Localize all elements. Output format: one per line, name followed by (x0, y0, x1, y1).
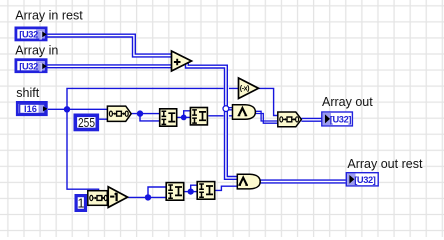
resistor R7: Join4 function (197, 182, 215, 200)
node: label Array out rest (347, 157, 423, 171)
op-amp U2: Negate function (239, 78, 259, 99)
svg-text:1: 1 (78, 197, 85, 211)
resistor R6: Join3 function (166, 183, 184, 201)
svg-text:(-x): (-x) (240, 84, 250, 93)
wire: Array in rest to Add top input (47, 36, 172, 56)
wire: Add output down and right into AND2 top input (187, 62, 237, 178)
wire: J3 up to Join3 top input (148, 187, 166, 197)
wire: JP down to Join1 bottom input (140, 114, 160, 121)
capacitor C2: constant 1 (76, 196, 85, 211)
svg-text:[U32]: [U32] (354, 175, 376, 185)
svg-text:]: ] (39, 61, 42, 72)
svg-text:I16: I16 (24, 104, 37, 114)
wire: AND2 output to Array out rest indicator (260, 179, 346, 183)
resistor R3: Join2 function (190, 108, 207, 125)
wire: Join1 output through junction J2 to Join2 bottom input (177, 116, 191, 118)
node: junction J2 (181, 115, 187, 121)
node: label Array out (322, 95, 373, 109)
svg-text:shift: shift (16, 86, 39, 100)
wire: Array in to Add bottom input (47, 64, 172, 68)
svg-text:255: 255 (78, 116, 95, 130)
node: indicator terminal Array out rest [U32] (346, 173, 378, 186)
svg-text:Array in: Array in (15, 44, 58, 58)
node: control terminal Array in [U32] (16, 60, 47, 73)
node: junction J1 (64, 106, 70, 112)
svg-text:Array out rest: Array out rest (347, 157, 423, 171)
node: label shift (16, 86, 39, 100)
wire: Join4 output to AND2 bottom input (215, 186, 237, 190)
wire: J1 down to decrement branch (67, 109, 99, 191)
resistor R1: Rotate1 function (107, 106, 131, 121)
node: control terminal shift I16 (17, 102, 47, 114)
wire: AND1 output to Rotate2 bottom input (255, 111, 277, 123)
wire: J1 up to Negate input (67, 88, 239, 109)
resistor R2: Join1 function (160, 109, 177, 126)
capacitor C1: constant 255 (75, 115, 97, 130)
svg-text:[U32: [U32 (19, 61, 38, 71)
resistor R5: Rotate3 function (88, 191, 108, 206)
wire: tap circle to AND1 top input (227, 108, 233, 110)
node: label Array in (15, 44, 58, 58)
wire: Join2 output to AND1 bottom input (208, 115, 232, 117)
wire: Rotate1 output through junction JP to Join1 top input (131, 113, 160, 115)
wire: Decrement output through J3 to Join3 bottom input (128, 196, 166, 198)
wire: Join3 output through J4 to Join4 bottom input (184, 191, 197, 193)
transistor Q1: AND1 gate (233, 105, 256, 120)
node: indicator terminal Array out [U32] (322, 112, 353, 126)
node A: tap circle on vertical array wire (223, 106, 229, 112)
svg-text:[U32: [U32 (19, 30, 38, 40)
resistor R4: Rotate2 function (278, 112, 302, 127)
wire: J2 up to Join2 top input (184, 111, 191, 118)
wire: constant 255 to Rotate1 bottom input (99, 118, 108, 120)
wire: Rotate2 output to Array out indicator (301, 118, 321, 122)
op-amp U1: Add function (172, 51, 192, 71)
svg-text:]: ] (39, 30, 42, 41)
node: control terminal Array in rest [U32] (16, 28, 47, 41)
node: junction J3 (145, 194, 151, 200)
node: label Array in rest (15, 9, 83, 23)
svg-text:Array out: Array out (322, 95, 373, 109)
node: junction JP (137, 110, 143, 116)
wire: shift terminal to junction J1 and to Rotate1 top input (48, 108, 108, 110)
node: junction J4 (188, 189, 194, 195)
svg-text:Array in rest: Array in rest (15, 9, 83, 23)
wire: Negate output down to Rotate2 top input (259, 88, 278, 115)
transistor Q2: AND2 gate (237, 174, 260, 189)
svg-text:[U32]: [U32] (330, 115, 352, 125)
wire: J4 up to Join4 top input (191, 185, 198, 191)
op-amp U3: Decrement function (108, 187, 127, 208)
